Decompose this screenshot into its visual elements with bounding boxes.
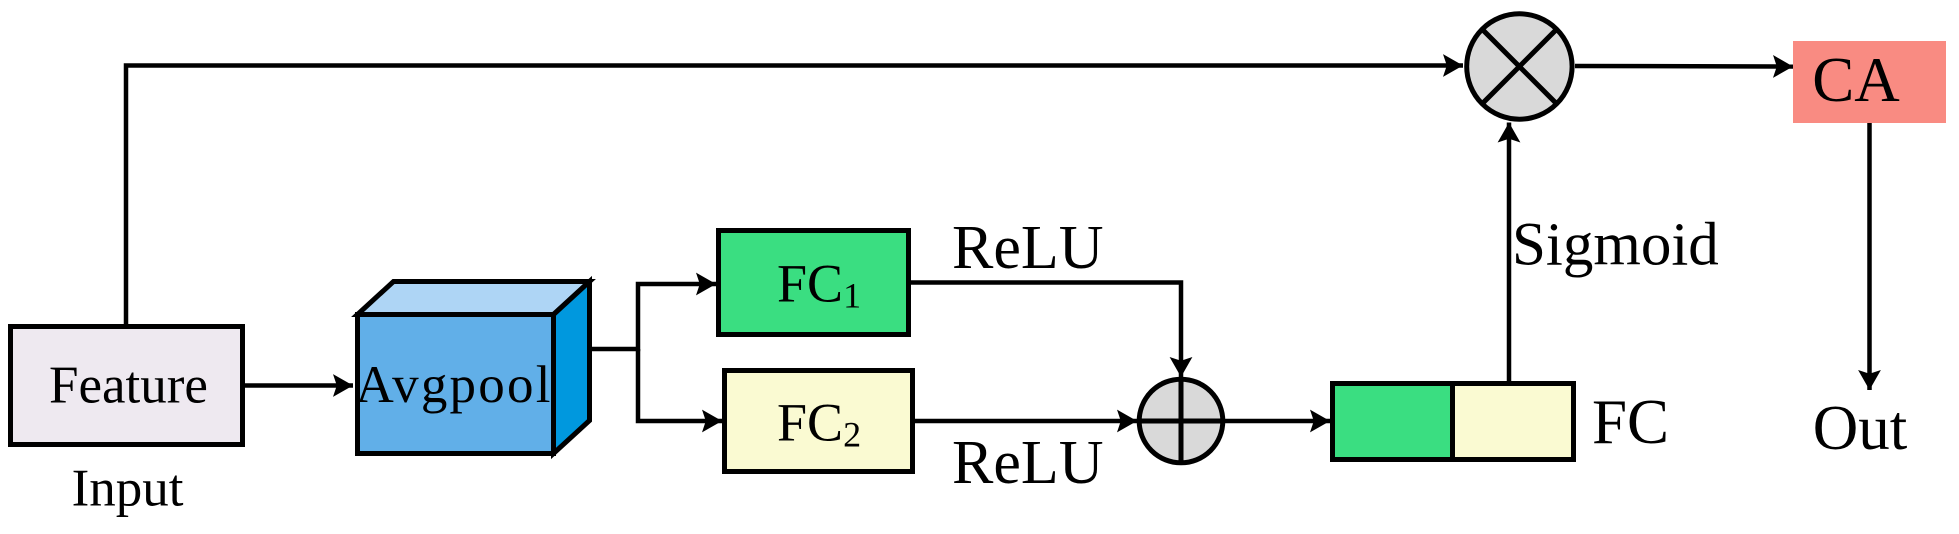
svg-text:Avgpool: Avgpool bbox=[356, 356, 551, 414]
svg-text:ReLU: ReLU bbox=[952, 429, 1104, 497]
svg-text:Out: Out bbox=[1813, 393, 1908, 463]
svg-text:CA: CA bbox=[1812, 45, 1900, 115]
svg-text:FC: FC bbox=[1592, 387, 1669, 457]
svg-text:ReLU: ReLU bbox=[952, 214, 1104, 282]
svg-text:Feature: Feature bbox=[49, 357, 208, 415]
svg-text:Input: Input bbox=[72, 460, 184, 518]
svg-text:Sigmoid: Sigmoid bbox=[1512, 212, 1719, 279]
